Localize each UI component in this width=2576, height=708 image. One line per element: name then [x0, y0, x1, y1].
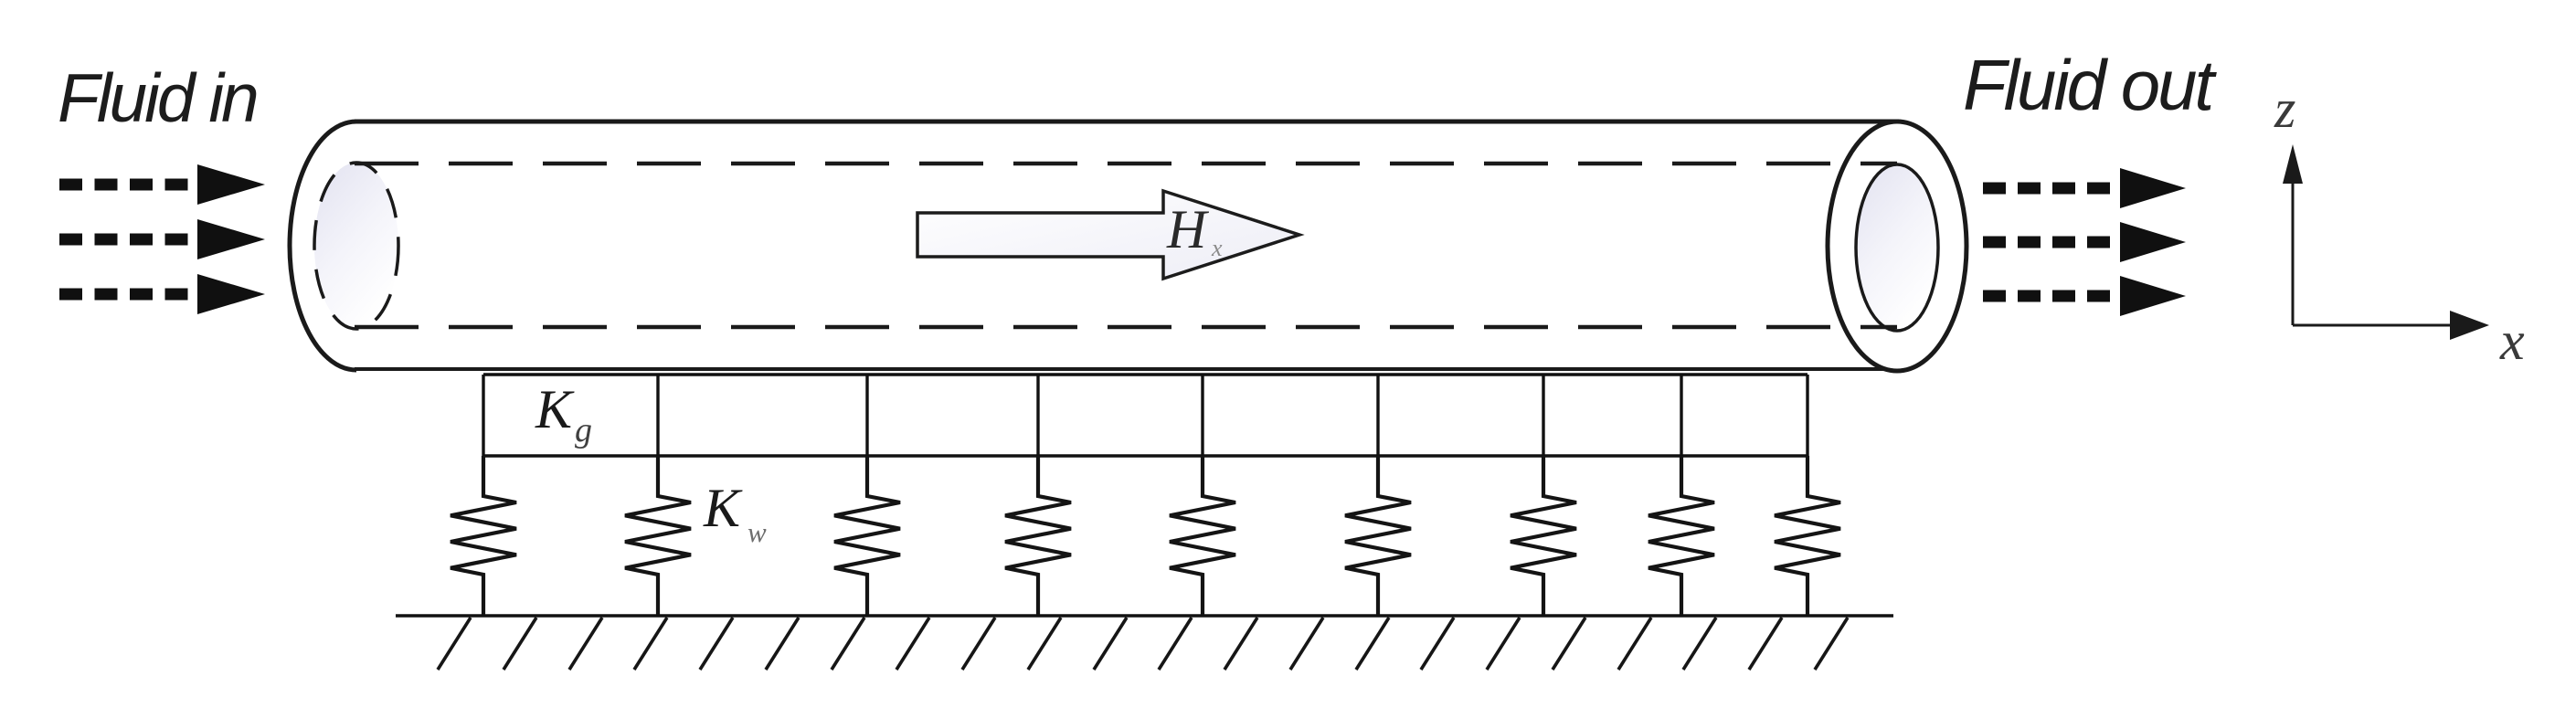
svg-text:K: K: [535, 379, 575, 439]
svg-text:x: x: [1211, 235, 1223, 261]
svg-text:x: x: [2499, 311, 2525, 371]
svg-text:K: K: [703, 478, 743, 538]
svg-text:w: w: [747, 516, 767, 548]
svg-text:H: H: [1166, 199, 1210, 259]
svg-text:Fluid out: Fluid out: [1963, 45, 2217, 125]
svg-text:Fluid in: Fluid in: [58, 59, 257, 136]
svg-text:g: g: [575, 411, 592, 449]
svg-text:z: z: [2274, 79, 2295, 139]
